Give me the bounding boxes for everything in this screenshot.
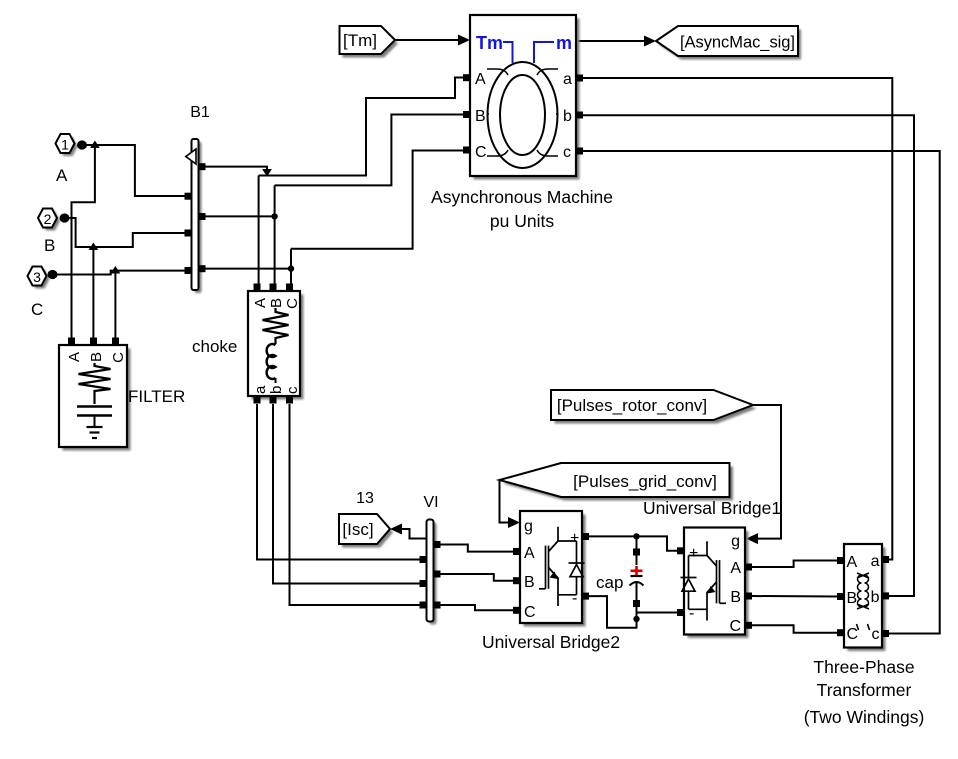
svg-text:B: B <box>730 589 741 606</box>
inductor in choke <box>267 344 276 379</box>
svg-text:[Tm]: [Tm] <box>343 31 377 50</box>
svg-text:B: B <box>847 590 858 607</box>
wire bridge2 minus rail <box>589 596 637 628</box>
svg-text:B: B <box>524 574 535 591</box>
capacitor cap <box>630 536 644 628</box>
resistor in choke <box>263 308 289 344</box>
svg-text:C: C <box>284 298 301 309</box>
svg-text:(Two Windings): (Two Windings) <box>804 707 925 727</box>
wire VI to bridge2 A <box>441 545 514 552</box>
goto tag [Isc] <box>339 514 393 548</box>
svg-text:A: A <box>56 166 68 185</box>
block Universal Bridge2 <box>513 511 589 627</box>
svg-text:b: b <box>563 108 572 125</box>
wire rotor pulses to bridge1 g <box>746 405 781 544</box>
IGBT in bridge1 (mirrored) <box>681 541 727 620</box>
block choke <box>248 284 304 404</box>
input port 2 <box>38 209 70 256</box>
junction arrow phase A <box>262 169 272 177</box>
svg-text:A: A <box>252 298 269 308</box>
svg-text:pu Units: pu Units <box>490 211 554 231</box>
ground in FILTER <box>87 426 103 428</box>
junction dot phase C <box>288 265 294 271</box>
svg-text:C: C <box>847 626 859 643</box>
block FILTER <box>59 338 131 451</box>
wire phase B to machine <box>275 115 463 186</box>
svg-text:b: b <box>871 589 880 606</box>
from tag [Pulses_rotor_conv] <box>551 390 757 424</box>
wire transformer a to machine a <box>583 78 892 560</box>
svg-text:g: g <box>524 518 533 535</box>
wire choke drop A <box>258 176 260 285</box>
svg-text:Transformer: Transformer <box>817 680 912 700</box>
svg-text:B: B <box>475 108 486 125</box>
svg-text:3: 3 <box>33 269 41 285</box>
block Universal Bridge1 <box>677 528 752 639</box>
wire grid pulses to bridge2 g <box>500 480 521 528</box>
wire phase A to machine <box>259 78 463 176</box>
wire bridge1 A to transformer <box>752 561 837 568</box>
svg-text:B1: B1 <box>190 104 210 121</box>
svg-text:2: 2 <box>44 211 52 227</box>
svg-text:13: 13 <box>356 490 374 507</box>
svg-text:C: C <box>31 300 43 319</box>
wire phase C to machine <box>291 151 463 249</box>
svg-text:A: A <box>475 71 486 88</box>
svg-text:[Pulses_rotor_conv]: [Pulses_rotor_conv] <box>557 396 707 415</box>
svg-text:Universal Bridge2: Universal Bridge2 <box>482 632 620 652</box>
input port 3 <box>28 267 58 320</box>
winding polarity ticks <box>857 624 859 630</box>
svg-text:c: c <box>284 386 301 394</box>
svg-text:a: a <box>871 553 880 570</box>
svg-text:c: c <box>563 144 571 161</box>
block Three-Phase Transformer <box>837 544 889 651</box>
junction branch A <box>72 141 100 339</box>
goto tag [AsyncMac_sig] <box>656 26 801 60</box>
svg-text:c: c <box>872 626 880 643</box>
svg-text:B: B <box>88 352 105 362</box>
junction branch C <box>111 266 121 338</box>
wire B1 out2 <box>206 215 275 217</box>
wire choke a to VI <box>257 404 420 560</box>
svg-text:-: - <box>689 605 694 622</box>
svg-text:Three-Phase: Three-Phase <box>813 657 914 677</box>
wire port2 to B1 <box>69 218 185 247</box>
svg-text:Asynchronous Machine: Asynchronous Machine <box>431 187 613 207</box>
svg-text:+: + <box>689 545 698 562</box>
wire VI to bridge2 B <box>441 574 514 581</box>
winding symbol <box>857 573 869 609</box>
transformer port squares <box>837 557 844 564</box>
wire VI to bridge2 C <box>441 605 514 610</box>
wire bridge1 B to transformer <box>752 595 837 598</box>
wire port1 to B1 <box>86 145 185 196</box>
svg-text:m: m <box>556 33 572 53</box>
svg-text:VI: VI <box>423 494 438 511</box>
svg-text:g: g <box>731 533 740 550</box>
svg-text:A: A <box>66 352 83 362</box>
bridge1 port squares <box>677 547 684 554</box>
resistor in FILTER <box>79 363 111 404</box>
wire B1 out3 <box>206 268 292 270</box>
svg-text:[Isc]: [Isc] <box>342 520 373 539</box>
B1 port squares <box>185 193 192 200</box>
wire cap to bridge1 minus <box>637 612 678 614</box>
svg-text:C: C <box>475 144 487 161</box>
label Three-Phase Transformer <box>804 657 925 727</box>
wire transformer b to machine b <box>583 115 914 596</box>
svg-text:b: b <box>268 386 285 394</box>
wire bridge1 C to transformer <box>752 625 837 632</box>
block VI measurement bar <box>420 494 441 625</box>
svg-text:FILTER: FILTER <box>128 387 185 406</box>
wire Tm to machine <box>395 35 470 46</box>
svg-text:A: A <box>730 560 741 577</box>
wire bridge2 plus rail <box>589 536 677 550</box>
block Asynchronous Machine <box>463 15 583 180</box>
svg-text:a: a <box>563 71 572 88</box>
block B1 bus bar <box>185 104 210 293</box>
wire VI to Isc <box>390 524 427 539</box>
from tag [Pulses_grid_conv] <box>500 463 734 501</box>
capacitor in FILTER <box>77 405 112 408</box>
svg-text:cap: cap <box>596 573 623 592</box>
svg-text:a: a <box>252 385 269 394</box>
junction branch B <box>89 243 99 339</box>
wire choke c to VI <box>290 404 420 605</box>
svg-text:1: 1 <box>61 137 69 153</box>
svg-text:C: C <box>524 604 536 621</box>
wire machine m to AsyncMac_sig <box>577 36 656 47</box>
svg-text:C: C <box>110 352 127 363</box>
svg-text:[Pulses_grid_conv]: [Pulses_grid_conv] <box>573 472 717 491</box>
svg-text:Universal Bridge1: Universal Bridge1 <box>643 498 781 518</box>
bridge2 port squares <box>513 548 520 555</box>
svg-text:B: B <box>44 236 55 255</box>
svg-text:Tm: Tm <box>476 33 503 53</box>
wire transformer c to machine c <box>583 151 940 634</box>
wire choke drop C <box>290 249 292 284</box>
machine port squares <box>463 74 470 81</box>
svg-text:B: B <box>268 298 285 308</box>
choke port squares <box>254 284 261 291</box>
IGBT in bridge2 <box>539 527 585 606</box>
wire port3 to B1 <box>57 271 185 275</box>
svg-text:C: C <box>729 618 741 635</box>
svg-text:A: A <box>524 545 535 562</box>
junction dot cap top <box>633 533 639 539</box>
svg-text:+: + <box>570 530 579 547</box>
svg-text:A: A <box>847 554 858 571</box>
wire B1 out1 <box>206 167 268 172</box>
junction dot phase B <box>271 213 277 219</box>
FILTER port squares <box>68 338 75 345</box>
input port 1 <box>56 134 88 185</box>
wire choke b to VI <box>273 404 420 584</box>
svg-text:[AsyncMac_sig]: [AsyncMac_sig] <box>680 34 795 52</box>
wire choke drop B <box>274 185 276 284</box>
label Asynchronous Machine <box>431 187 613 231</box>
svg-text:choke: choke <box>192 337 237 356</box>
from tag [Tm] <box>340 26 399 58</box>
